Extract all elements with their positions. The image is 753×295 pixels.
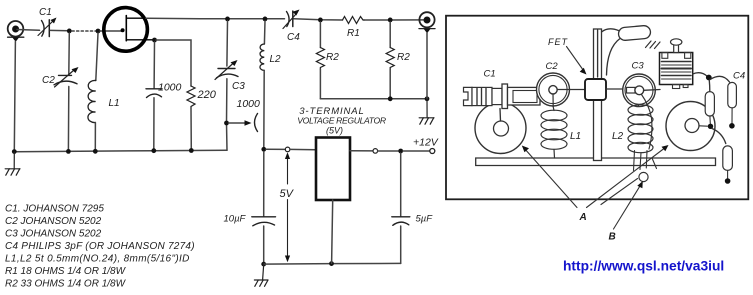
capacitor 5uF xyxy=(400,153,402,216)
capacitor C1 (variable, series) xyxy=(38,18,57,37)
wire regulator center pin xyxy=(332,200,333,263)
capacitor 10uF xyxy=(263,152,265,217)
wire C1 to node A xyxy=(51,29,69,31)
wire oval to FET xyxy=(607,39,621,76)
svg-text:L1: L1 xyxy=(109,98,120,109)
base plate bar xyxy=(476,158,716,166)
resistor R2 (left) xyxy=(319,22,321,48)
inductor L2 (coil pictorial) xyxy=(628,105,653,153)
wire disc dot to oval C xyxy=(712,129,726,144)
label B leader lines xyxy=(601,179,638,205)
svg-text:C2: C2 xyxy=(42,75,55,86)
wire R2 bottoms xyxy=(320,98,427,100)
shaft wire FET to C3 xyxy=(606,88,626,90)
node 5V line L2 xyxy=(261,147,266,152)
FET package xyxy=(585,79,606,100)
node rail R2b xyxy=(388,18,393,23)
transistor Q1 (FET) xyxy=(104,8,156,52)
C2 tuning capacitor (top view) xyxy=(537,73,570,106)
label A leader lines xyxy=(524,148,577,208)
svg-text:C3 JOHANSON 5202: C3 JOHANSON 5202 xyxy=(5,229,102,240)
node rail L2 xyxy=(263,17,268,22)
node A xyxy=(67,29,72,34)
connector J1 (antenna input) xyxy=(8,21,24,42)
node C3 bottom xyxy=(224,121,229,126)
svg-text:B: B xyxy=(609,232,616,243)
feedthrough capacitor (top oval) xyxy=(618,25,651,41)
C1 trimmer body xyxy=(464,84,541,121)
capacitor C2 (variable, to ground) xyxy=(68,33,71,75)
wire regulator output xyxy=(350,150,373,152)
pin circle regulator input xyxy=(285,147,290,152)
feedthrough hole B xyxy=(639,172,648,181)
regulator U1 box xyxy=(316,138,350,201)
capacitor C4 (variable, series in rail) xyxy=(283,10,300,29)
C3 tuning capacitor (top view) xyxy=(623,74,656,107)
wire J1 to C1 xyxy=(17,29,40,32)
svg-text:R2: R2 xyxy=(326,52,339,63)
svg-text:C2 JOHANSON 5202: C2 JOHANSON 5202 xyxy=(5,216,102,227)
capacitor 1000 (source bypass) xyxy=(153,42,155,88)
inductor L2 xyxy=(263,21,266,44)
mounting strip xyxy=(594,29,602,161)
ground bus wire xyxy=(14,150,227,152)
terminal +12V xyxy=(430,149,435,154)
ground symbol G3 xyxy=(254,264,268,286)
wires regulator to C4 xyxy=(693,73,708,77)
5V dimension arrows xyxy=(285,152,290,262)
svg-text:R1 18 OHMS 1/4 OR 1/8W: R1 18 OHMS 1/4 OR 1/8W xyxy=(5,266,127,277)
svg-text:C3: C3 xyxy=(232,81,245,92)
wire J1 down to ground bus xyxy=(14,42,15,152)
node regulator pin bottom xyxy=(329,261,334,266)
svg-text:(5V): (5V) xyxy=(326,126,343,136)
resistor R2 (right) xyxy=(389,22,391,48)
svg-text:A: A xyxy=(579,212,587,223)
svg-text:C1. JOHANSON 7295: C1. JOHANSON 7295 xyxy=(5,204,104,215)
svg-text:C1: C1 xyxy=(39,7,52,18)
svg-text:C1: C1 xyxy=(484,68,496,79)
bottom wire xyxy=(264,262,401,265)
L2 wire ends through plate xyxy=(634,151,657,171)
wire node A to node B (dashed) xyxy=(72,30,96,32)
wire rail C4 to output xyxy=(294,19,343,20)
capacitor C3 (variable) xyxy=(226,21,229,66)
wire source to R 220 xyxy=(156,40,191,86)
svg-text:http://www.qsl.net/va3iul: http://www.qsl.net/va3iul xyxy=(563,259,724,274)
right disc xyxy=(666,102,715,151)
C4 capacitor oval A xyxy=(705,92,714,116)
node 5uF xyxy=(398,149,403,154)
ground symbol G2 xyxy=(419,99,434,124)
node rail C3 xyxy=(225,17,230,22)
wire node B to FET gate xyxy=(100,30,123,32)
inductor L1 (coil pictorial) xyxy=(541,106,567,158)
node bottom left xyxy=(261,262,266,267)
ground hatch (wall) xyxy=(646,41,661,49)
svg-text:VOLTAGE REGULATOR: VOLTAGE REGULATOR xyxy=(297,116,386,126)
FET leader arrow xyxy=(567,47,584,71)
wire 5V to regulator pin xyxy=(266,148,285,150)
svg-text:FET: FET xyxy=(548,37,569,47)
svg-text:220: 220 xyxy=(197,89,217,101)
wire top rail drain to C4 xyxy=(146,17,285,20)
pictorial frame xyxy=(446,16,748,200)
resistor R1 (series in rail) xyxy=(343,17,365,24)
svg-text:C4: C4 xyxy=(733,71,745,82)
wire strip top to feedthrough xyxy=(602,29,619,32)
svg-text:L2: L2 xyxy=(612,131,624,142)
svg-text:L1: L1 xyxy=(570,131,581,142)
svg-text:1000: 1000 xyxy=(158,82,182,94)
svg-text:5V: 5V xyxy=(280,188,295,200)
svg-text:C4: C4 xyxy=(287,32,300,43)
ground symbol G1 xyxy=(5,152,20,175)
voltage regulator block xyxy=(660,39,693,89)
svg-text:5µF: 5µF xyxy=(416,214,434,225)
svg-text:R2: R2 xyxy=(397,52,410,63)
connector J2 (RF output) xyxy=(419,12,435,33)
shaft wire C3 right xyxy=(644,89,661,92)
resistor 220 xyxy=(187,86,195,108)
C4 capacitor oval C xyxy=(723,146,733,171)
svg-text:C3: C3 xyxy=(632,60,645,71)
svg-text:L1,L2 5t 0.5mm(NO.24), 8mm(5/1: L1,L2 5t 0.5mm(NO.24), 8mm(5/16")ID xyxy=(5,254,190,265)
left disc (C1 rotor) xyxy=(475,103,526,154)
svg-text:+12V: +12V xyxy=(413,137,439,149)
pin circle regulator output xyxy=(373,149,378,154)
svg-text:L2: L2 xyxy=(270,54,282,65)
node rail R2a xyxy=(318,18,323,23)
shaft wire C2 to FET xyxy=(556,89,585,91)
svg-text:C2: C2 xyxy=(546,61,559,72)
svg-text:R1: R1 xyxy=(347,28,360,39)
svg-text:10µF: 10µF xyxy=(224,214,247,225)
node B xyxy=(96,29,101,34)
C4 capacitor oval B xyxy=(728,82,737,108)
node FET source xyxy=(152,38,157,43)
inductor L1 xyxy=(96,33,98,81)
svg-text:C4 PHILIPS 3pF (OR JOHANSON 72: C4 PHILIPS 3pF (OR JOHANSON 7274) xyxy=(5,241,195,252)
wire J2 down xyxy=(426,33,428,99)
svg-text:1000: 1000 xyxy=(237,98,261,110)
capacitor 1000 (feedthrough to 5V line) xyxy=(229,122,247,124)
svg-text:R2 33 OHMS 1/4 OR 1/8W: R2 33 OHMS 1/4 OR 1/8W xyxy=(5,279,127,290)
wire bus up to C3 node xyxy=(226,123,229,150)
hub C2 xyxy=(549,86,557,94)
